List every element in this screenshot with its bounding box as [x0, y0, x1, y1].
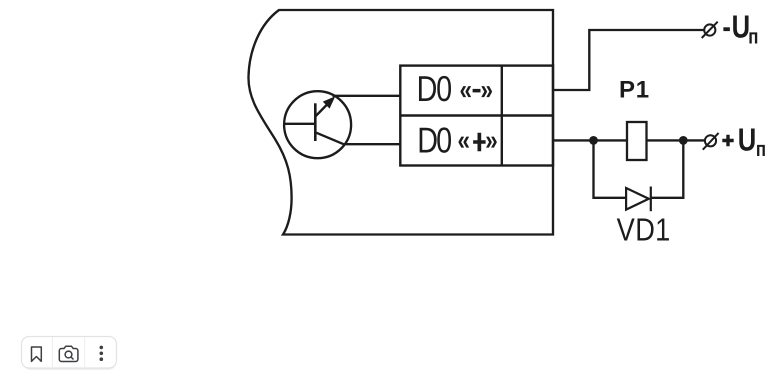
plus of +Up [722, 135, 733, 146]
wire diode branch right [651, 140, 684, 197]
svg-text:P1: P1 [619, 76, 649, 103]
bookmark icon [32, 347, 42, 361]
wire DO minus to -Up terminal [553, 30, 704, 90]
label DO plus [417, 120, 497, 161]
browser toolbar [22, 337, 117, 371]
wire DO plus to relay [553, 139, 627, 141]
wire diode branch left [594, 140, 627, 197]
relay coil P1 [627, 122, 647, 160]
wire relay to +Up terminal [647, 139, 705, 141]
wire emitter to DO plus [344, 143, 400, 145]
terminal block [400, 66, 553, 166]
node junction left [589, 136, 598, 145]
image-search icon [59, 346, 78, 361]
menu icon [100, 346, 104, 361]
device outline [248, 10, 553, 235]
label DO minus [417, 68, 493, 109]
wire collector to DO minus [333, 95, 401, 97]
svg-text:-Uп: -Uп [722, 9, 758, 49]
svg-text:D0: D0 [417, 120, 452, 161]
terminal +Up [703, 133, 719, 150]
terminal -Up [702, 22, 718, 38]
transistor Q1 [284, 91, 351, 158]
svg-text:VD1: VD1 [617, 212, 671, 248]
node junction right [679, 136, 688, 145]
svg-text:D0: D0 [417, 68, 452, 109]
svg-text:Uп: Uп [738, 121, 766, 161]
diode VD1 [626, 187, 651, 212]
